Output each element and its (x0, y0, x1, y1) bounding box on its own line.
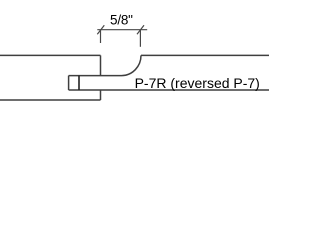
wire: tongue end vertical (78, 76, 80, 90)
svg-text:5/8": 5/8" (110, 12, 133, 27)
wire: groove end vertical (68, 76, 70, 90)
wire: right tick (137, 25, 144, 34)
wire: left extension line (100, 30, 102, 43)
wire: tongue bottom line (69, 89, 269, 91)
wire: cove curve of panel profile (122, 55, 142, 75)
wire: right extension line (139, 30, 141, 47)
wire: stile right edge lower (100, 90, 102, 100)
wire: stile bottom edge (0, 99, 101, 101)
wire: stile top edge (0, 54, 101, 56)
svg-text:P-7R (reversed P-7): P-7R (reversed P-7) (135, 75, 260, 91)
wire: left tick (97, 25, 104, 34)
wire: dimension line (97, 29, 147, 31)
wire: tongue/groove top line (69, 75, 122, 77)
wire: stile right edge upper (100, 55, 102, 75)
wire: panel top face (141, 54, 269, 56)
